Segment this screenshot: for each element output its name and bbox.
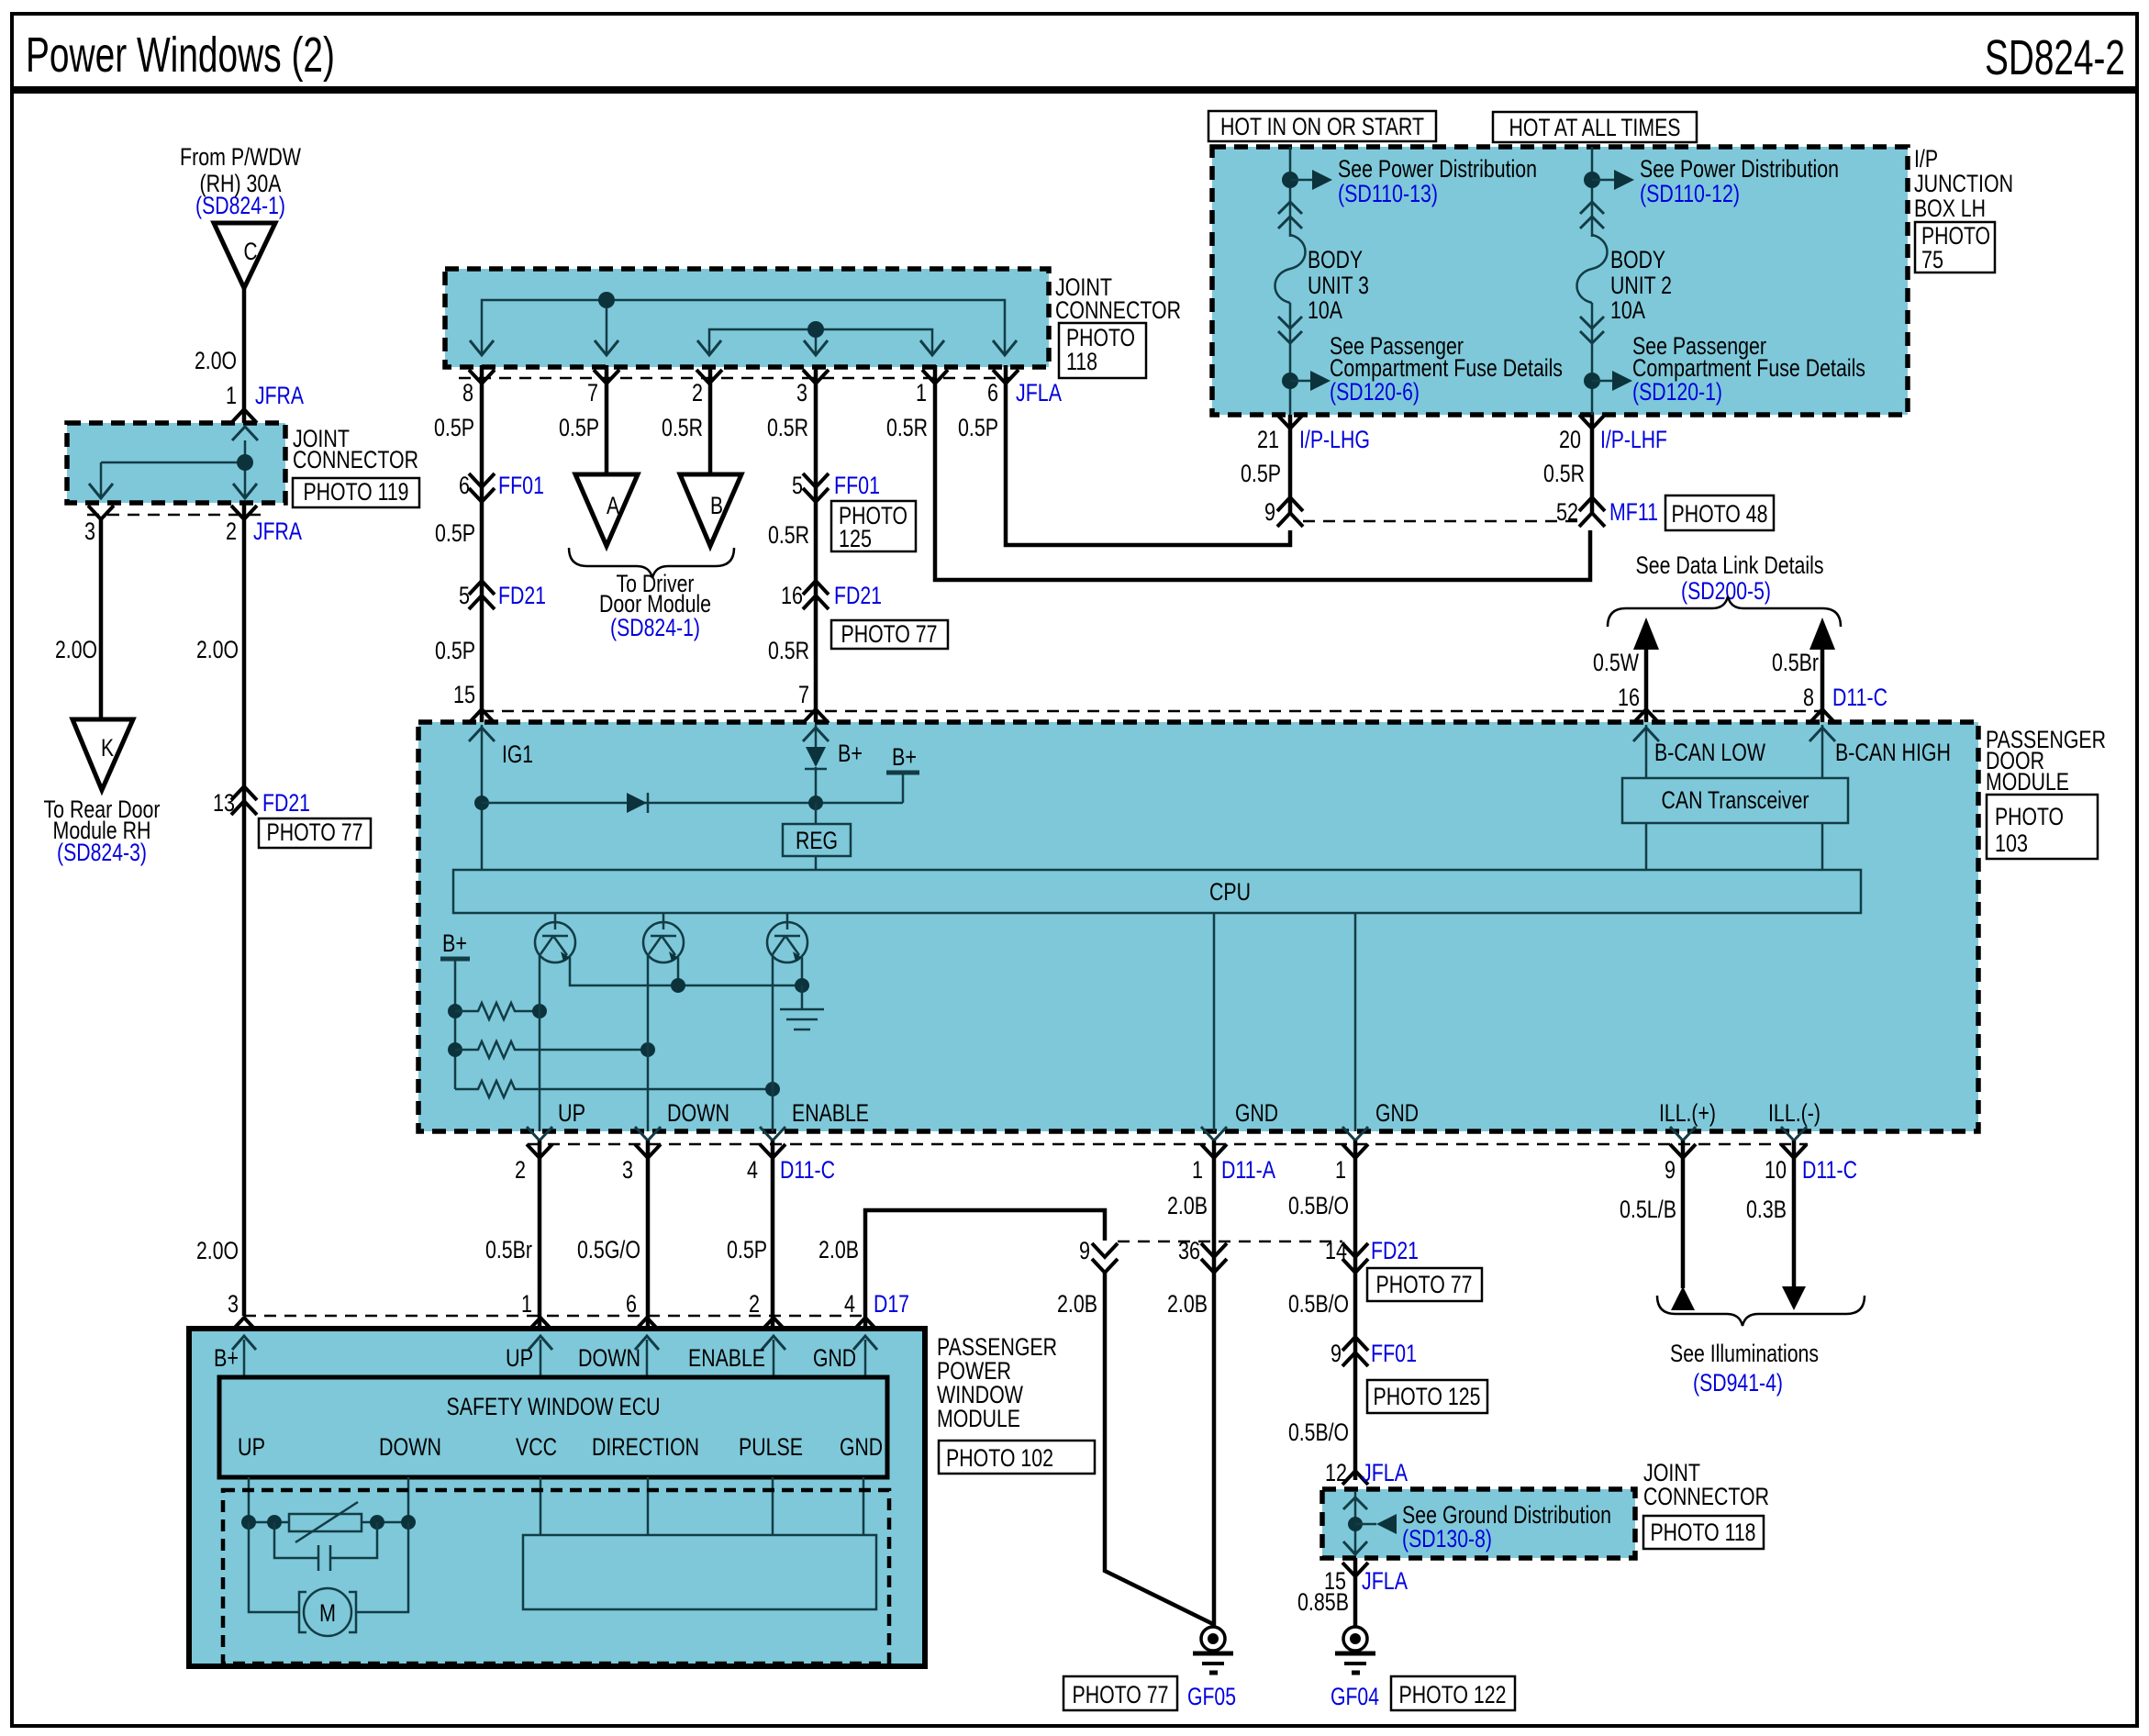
svg-text:(SD824-1): (SD824-1)	[610, 614, 700, 641]
svg-text:0.5R: 0.5R	[1543, 460, 1585, 487]
svg-text:UP: UP	[558, 1099, 585, 1127]
CAN Transceiver box	[1622, 778, 1848, 823]
svg-text:75: 75	[1921, 246, 1943, 273]
B+ pin inner chevron	[232, 1336, 256, 1350]
svg-text:13: 13	[213, 789, 235, 817]
svg-text:PHOTO 77: PHOTO 77	[267, 818, 363, 846]
svg-text:D11-C: D11-C	[780, 1156, 835, 1184]
svg-text:2: 2	[692, 379, 703, 406]
ENABLE pin inner chevron	[762, 1336, 785, 1350]
wire through JC	[1354, 1492, 1357, 1555]
wire inside JC119	[101, 462, 245, 464]
pin 2 D11-C chevrons (UP)	[527, 1127, 552, 1141]
svg-text:PHOTO 48: PHOTO 48	[1672, 500, 1768, 528]
svg-text:JFRA: JFRA	[255, 382, 304, 409]
title separator	[12, 86, 2137, 94]
svg-text:4: 4	[747, 1156, 758, 1184]
wire 0.5B/O chain from D11-C pin1	[1353, 1141, 1358, 1480]
brace over data link arrows	[1608, 596, 1841, 627]
resistor R3	[455, 1081, 773, 1097]
capacitor branch	[274, 1522, 318, 1558]
svg-text:3: 3	[228, 1290, 239, 1318]
svg-text:GF05: GF05	[1187, 1683, 1236, 1710]
wire 3: JFLA-3 down to module B+	[814, 365, 818, 725]
svg-text:FD21: FD21	[834, 582, 882, 609]
svg-text:3: 3	[622, 1156, 633, 1184]
svg-text:B-CAN HIGH: B-CAN HIGH	[1835, 739, 1951, 766]
svg-text:2.0O: 2.0O	[196, 1237, 239, 1264]
svg-text:FF01: FF01	[834, 472, 880, 499]
bus wire 1 inside JC118	[482, 300, 1005, 353]
pin 21 I/P-LHG	[1277, 415, 1303, 428]
connector triangle K	[72, 719, 133, 790]
svg-text:1: 1	[1335, 1156, 1346, 1184]
svg-text:0.5R: 0.5R	[886, 414, 928, 441]
svg-text:(SD941-4): (SD941-4)	[1693, 1369, 1783, 1397]
wires from pins to ECU	[243, 1340, 246, 1377]
transistor Q1	[554, 913, 557, 929]
svg-text:JFLA: JFLA	[1362, 1567, 1408, 1595]
svg-text:5: 5	[792, 472, 803, 499]
svg-text:JFRA: JFRA	[253, 517, 302, 545]
thermistor row	[249, 1521, 289, 1524]
ILL.(+) wire stub with up arrow	[1681, 1141, 1686, 1288]
svg-text:10A: 10A	[1308, 296, 1342, 324]
connector JFLA pin 8 chevron	[469, 370, 495, 384]
connector JFLA pin 7 chevron	[594, 370, 619, 384]
svg-text:FF01: FF01	[1371, 1340, 1417, 1367]
joint connector box (ground distribution)	[1322, 1489, 1635, 1558]
svg-text:0.5R: 0.5R	[768, 521, 809, 549]
passenger door module box	[418, 722, 1978, 1131]
svg-text:UNIT 3: UNIT 3	[1308, 272, 1369, 299]
svg-text:See Power Distribution: See Power Distribution	[1338, 155, 1537, 183]
connector 9 on 2.0B	[1092, 1243, 1118, 1257]
wire 0.5W B-CAN LOW up arrow	[1644, 642, 1649, 722]
svg-text:Power Windows (2): Power Windows (2)	[26, 28, 335, 83]
UP pin inner chevron	[529, 1336, 552, 1350]
svg-text:HOT IN ON OR START: HOT IN ON OR START	[1220, 113, 1424, 140]
svg-text:DOWN: DOWN	[379, 1433, 441, 1461]
svg-text:1: 1	[521, 1290, 532, 1318]
svg-text:K: K	[101, 734, 114, 762]
connector triangle B	[680, 474, 741, 546]
REG box	[815, 803, 818, 824]
svg-text:B-CAN LOW: B-CAN LOW	[1654, 739, 1765, 766]
motor unit dashed box	[223, 1490, 889, 1664]
pin B-CAN HIGH chevrons	[1809, 709, 1835, 723]
pin B+ chevrons	[803, 709, 829, 723]
fuse BODY UNIT 2 wire	[1591, 147, 1594, 237]
svg-text:PHOTO 119: PHOTO 119	[304, 478, 409, 506]
junction dot bus2	[807, 321, 824, 338]
svg-text:UP: UP	[506, 1344, 533, 1372]
CPU box	[453, 870, 1861, 913]
fuse symbol BODY UNIT 2 10A	[1577, 235, 1608, 303]
arrowhead to pin 3	[804, 340, 828, 355]
svg-text:118: 118	[1066, 348, 1097, 375]
svg-text:9: 9	[1079, 1237, 1090, 1264]
svg-text:D17: D17	[874, 1290, 909, 1318]
pin 1 D11-C chevrons (GND)	[1342, 1127, 1368, 1141]
emitter bus wire	[570, 957, 802, 985]
svg-text:0.5P: 0.5P	[958, 414, 998, 441]
passenger power window module box	[189, 1329, 925, 1666]
svg-text:ENABLE: ENABLE	[792, 1099, 869, 1127]
svg-text:ILL.(-): ILL.(-)	[1768, 1099, 1821, 1127]
svg-text:(SD120-1): (SD120-1)	[1632, 378, 1722, 406]
svg-text:MODULE: MODULE	[937, 1405, 1020, 1432]
svg-text:7: 7	[587, 379, 598, 406]
svg-text:PULSE: PULSE	[739, 1433, 803, 1461]
svg-text:0.5Br: 0.5Br	[1772, 649, 1819, 676]
svg-text:0.3B: 0.3B	[1746, 1196, 1787, 1223]
node C: From P/WDW (RH) 30A label	[180, 143, 301, 219]
connector JFLA pin 6 chevron	[993, 370, 1019, 384]
svg-text:36: 36	[1178, 1237, 1200, 1264]
arrowhead to pin 2	[697, 340, 721, 355]
svg-text:3: 3	[796, 379, 807, 406]
svg-text:See Data Link Details: See Data Link Details	[1636, 551, 1824, 579]
connector 5 FF01	[803, 473, 829, 487]
arrowhead to pin 7	[595, 340, 618, 355]
svg-text:From P/WDW: From P/WDW	[180, 143, 301, 171]
svg-text:2.0B: 2.0B	[1057, 1290, 1097, 1318]
svg-text:I/P-LHG: I/P-LHG	[1299, 426, 1370, 453]
svg-text:20: 20	[1559, 426, 1581, 453]
svg-text:10A: 10A	[1610, 296, 1645, 324]
svg-text:D11-C: D11-C	[1802, 1156, 1857, 1184]
svg-text:BODY: BODY	[1308, 246, 1363, 273]
svg-text:(SD110-13): (SD110-13)	[1338, 180, 1438, 207]
wire 0.5P ENABLE to PPWM	[771, 1141, 775, 1330]
junction dot bus1	[598, 292, 615, 308]
IG1 wire to CPU	[481, 725, 484, 870]
svg-text:PHOTO 118: PHOTO 118	[1651, 1519, 1756, 1546]
svg-text:FD21: FD21	[1371, 1237, 1419, 1264]
pin 4 D17 chevron (GND)	[852, 1318, 878, 1331]
svg-text:0.5G/O: 0.5G/O	[577, 1236, 640, 1263]
pin B-CAN LOW chevrons	[1633, 709, 1659, 723]
brace under illumination arrows	[1657, 1296, 1865, 1326]
connector 6 FF01	[469, 473, 495, 487]
svg-text:UNIT 2: UNIT 2	[1610, 272, 1672, 299]
pin 4 D11-C chevrons (ENABLE)	[760, 1127, 785, 1141]
connector triangle A	[575, 474, 638, 546]
connector 14 FD21	[1342, 1243, 1368, 1257]
svg-text:16: 16	[781, 582, 803, 609]
pin 1 D11-A chevrons (GND)	[1201, 1127, 1227, 1141]
svg-text:GND: GND	[840, 1433, 883, 1461]
fuse BODY UNIT 3 wire	[1289, 147, 1292, 237]
svg-text:JFLA: JFLA	[1016, 379, 1062, 406]
pin 3 D17 chevron (B+)	[231, 1318, 257, 1331]
svg-text:2: 2	[226, 517, 237, 545]
wire 6: JFLA-6 right to MF11-9	[1006, 365, 1290, 545]
svg-text:FD21: FD21	[498, 582, 546, 609]
resistor R2	[455, 1041, 648, 1058]
svg-text:GF04: GF04	[1331, 1683, 1379, 1710]
arrowheads down inside box	[89, 484, 113, 498]
wire 0.5G/O DOWN to PPWM	[646, 1141, 651, 1330]
svg-text:D11-A: D11-A	[1221, 1156, 1275, 1184]
connector pin line below module	[528, 1143, 1808, 1146]
connector 12 JFLA	[1342, 1471, 1368, 1485]
motor M branch	[249, 1522, 299, 1612]
arrowhead down at JC bottom	[1343, 1541, 1367, 1554]
arrow to See Power Distribution	[1592, 179, 1614, 182]
svg-text:B+: B+	[892, 743, 917, 771]
svg-text:0.5B/O: 0.5B/O	[1288, 1290, 1349, 1318]
wire 0.5Br B-CAN HIGH up arrow	[1821, 642, 1825, 722]
GND wire 2	[1354, 913, 1357, 1131]
svg-text:2.0O: 2.0O	[196, 636, 239, 663]
chevrons down below fuse	[1278, 317, 1302, 328]
svg-text:7: 7	[798, 681, 809, 708]
pin 1 D17 chevron (UP)	[528, 1318, 553, 1331]
junction dot lower	[1584, 373, 1600, 389]
chevrons down	[1580, 317, 1604, 328]
pin 10 D11-C chevrons (ILL-)	[1781, 1127, 1807, 1141]
svg-text:6: 6	[459, 472, 470, 499]
chevrons up	[1580, 202, 1604, 214]
svg-text:2.0B: 2.0B	[1167, 1192, 1208, 1219]
svg-text:0.5B/O: 0.5B/O	[1288, 1192, 1349, 1219]
svg-text:FD21: FD21	[262, 789, 310, 817]
wire 2.0O to K triangle	[99, 519, 104, 719]
HOT IN ON OR START box	[1208, 111, 1436, 141]
brace under triangles A,B	[569, 548, 734, 578]
svg-text:9: 9	[1331, 1340, 1342, 1367]
svg-text:HOT AT ALL TIMES: HOT AT ALL TIMES	[1509, 114, 1681, 141]
wire 0.5Br UP to PPWM	[538, 1141, 542, 1330]
svg-text:IG1: IG1	[502, 740, 533, 768]
pulse encoder box	[523, 1535, 876, 1609]
svg-text:PHOTO 77: PHOTO 77	[1073, 1681, 1169, 1708]
svg-text:0.5B/O: 0.5B/O	[1288, 1419, 1349, 1446]
svg-text:14: 14	[1325, 1237, 1347, 1264]
svg-text:MF11: MF11	[1609, 498, 1658, 526]
svg-text:GND: GND	[1235, 1099, 1278, 1127]
svg-text:2.0O: 2.0O	[55, 636, 97, 663]
svg-text:UP: UP	[238, 1433, 265, 1461]
svg-text:BOX LH: BOX LH	[1914, 195, 1986, 222]
svg-text:MODULE: MODULE	[1986, 768, 2069, 796]
svg-text:(SD130-8): (SD130-8)	[1402, 1525, 1492, 1552]
svg-text:125: 125	[839, 525, 872, 552]
svg-text:0.5R: 0.5R	[767, 414, 808, 441]
junction dot	[1348, 1517, 1363, 1531]
wire 2.0B from PPWM GND up over to GF05	[865, 1210, 1105, 1330]
connector D17 pin line above PPWM	[244, 1315, 865, 1318]
svg-text:VCC: VCC	[516, 1433, 557, 1461]
connector 16 FD21	[803, 581, 829, 595]
transistor Q3	[786, 913, 789, 929]
svg-text:CAN Transceiver: CAN Transceiver	[1662, 786, 1809, 814]
svg-text:1: 1	[916, 379, 927, 406]
svg-text:I/P: I/P	[1914, 145, 1938, 172]
connector triangle C	[214, 223, 275, 288]
joint connector JFRA box PHOTO 119	[67, 423, 285, 503]
bus wire 2 inside JC118	[709, 329, 932, 353]
svg-text:PHOTO 125: PHOTO 125	[1374, 1383, 1481, 1410]
connector JFLA pin 1 chevron	[922, 370, 948, 384]
ground inside module	[801, 985, 804, 1009]
svg-text:PHOTO 102: PHOTO 102	[946, 1444, 1053, 1472]
resistor R1	[455, 1003, 540, 1019]
svg-text:JUNCTION: JUNCTION	[1914, 170, 2013, 197]
svg-text:D11-C: D11-C	[1832, 684, 1887, 711]
connector 9 FF01	[1342, 1337, 1368, 1351]
connector 15 JFLA	[1342, 1563, 1368, 1576]
svg-text:See Illuminations: See Illuminations	[1670, 1340, 1819, 1367]
svg-text:C: C	[244, 238, 258, 265]
joint connector box PHOTO 118 (top)	[445, 269, 1049, 367]
svg-text:21: 21	[1257, 426, 1279, 453]
svg-text:3: 3	[84, 517, 95, 545]
svg-text:15: 15	[453, 681, 475, 708]
transistor Q2	[663, 913, 665, 929]
connector row dashed line	[1118, 1241, 1342, 1243]
svg-text:PHOTO 77: PHOTO 77	[1376, 1271, 1473, 1298]
svg-text:CONNECTOR: CONNECTOR	[1055, 296, 1181, 324]
wire 0.5R down	[1590, 415, 1595, 516]
svg-text:See Power Distribution: See Power Distribution	[1640, 155, 1839, 183]
svg-text:SAFETY WINDOW ECU: SAFETY WINDOW ECU	[447, 1393, 661, 1420]
svg-text:PHOTO 122: PHOTO 122	[1399, 1681, 1507, 1708]
connector JFLA pin 3 chevron	[803, 370, 829, 384]
junction dot	[1282, 172, 1298, 188]
internal rail with diode to REG	[482, 802, 903, 805]
svg-text:(SD824-3): (SD824-3)	[57, 839, 147, 866]
arrowhead to pin 1	[920, 340, 944, 355]
wire 7: JFLA-7 down to triangle A	[605, 365, 609, 474]
I/P junction box LH (teal)	[1212, 147, 1908, 415]
svg-text:B+: B+	[442, 929, 467, 957]
svg-text:2.0B: 2.0B	[818, 1236, 859, 1263]
wire 2.0B from D11-A pin1 to GF05	[1212, 1141, 1217, 1626]
svg-text:0.5Br: 0.5Br	[485, 1236, 532, 1263]
svg-text:0.5W: 0.5W	[1593, 649, 1639, 676]
svg-text:ILL.(+): ILL.(+)	[1659, 1099, 1716, 1127]
wire 2.0O from C down to PPWM pin 3	[242, 288, 247, 1316]
wire 2: JFLA-2 down to triangle B	[708, 365, 713, 474]
svg-text:PHOTO 77: PHOTO 77	[841, 620, 938, 648]
svg-text:0.5L/B: 0.5L/B	[1620, 1196, 1676, 1223]
wire 0.5P down	[1288, 415, 1293, 516]
svg-text:0.5P: 0.5P	[434, 414, 474, 441]
collector wire ENABLE	[772, 954, 774, 1131]
junction dot on IG1 wire	[474, 796, 489, 810]
svg-text:8: 8	[1803, 684, 1814, 711]
svg-text:I/P-LHF: I/P-LHF	[1600, 426, 1667, 453]
svg-text:0.5P: 0.5P	[559, 414, 599, 441]
svg-text:10: 10	[1765, 1156, 1787, 1184]
svg-text:CPU: CPU	[1209, 878, 1251, 906]
svg-text:0.5P: 0.5P	[727, 1236, 767, 1263]
junction dot	[237, 454, 253, 471]
chevrons up above fuse	[1278, 202, 1302, 214]
svg-text:4: 4	[844, 1290, 855, 1318]
svg-text:SD824-2: SD824-2	[1985, 30, 2125, 85]
diode right-pointing on rail	[627, 793, 647, 813]
ground GF04	[1343, 1627, 1367, 1651]
connector pin line below JC118	[459, 377, 1009, 380]
wire 8: JFLA-8 down to module IG1	[480, 365, 484, 725]
connector JFLA pin 2 chevron	[696, 370, 722, 384]
ILL.(-) wire stub with down arrow	[1792, 1141, 1797, 1288]
thermistor	[289, 1514, 362, 1531]
svg-text:(SD824-1): (SD824-1)	[195, 192, 285, 219]
arrowhead to pin 8	[470, 340, 494, 355]
pin 20 I/P-LHF	[1579, 415, 1605, 428]
svg-text:0.85B: 0.85B	[1297, 1588, 1349, 1616]
collector wire DOWN	[647, 954, 650, 1131]
svg-text:B+: B+	[214, 1344, 239, 1372]
connector 13 FD21 on wire 2.0O	[231, 786, 257, 800]
svg-text:(SD110-12): (SD110-12)	[1640, 180, 1740, 207]
wires from ECU down	[248, 1477, 251, 1522]
svg-text:(SD120-6): (SD120-6)	[1330, 378, 1420, 406]
junction dot	[1584, 172, 1600, 188]
collector wire UP	[539, 954, 541, 1131]
svg-text:0.5P: 0.5P	[435, 519, 475, 547]
diode down at B+ pin	[815, 725, 818, 747]
svg-text:1: 1	[1192, 1156, 1203, 1184]
connector 5 FD21	[469, 581, 495, 595]
ground GF05	[1201, 1627, 1225, 1651]
MF11 connector dashed line	[1303, 520, 1579, 523]
svg-text:CONNECTOR: CONNECTOR	[1643, 1483, 1769, 1510]
arrow right	[1592, 380, 1612, 383]
svg-text:6: 6	[626, 1290, 637, 1318]
pin 3 D11-C chevrons (DOWN)	[635, 1127, 661, 1141]
arrow left to See Ground Distribution	[1355, 1523, 1376, 1526]
svg-text:8: 8	[462, 379, 473, 406]
svg-text:2.0B: 2.0B	[1167, 1290, 1208, 1318]
svg-text:DIRECTION: DIRECTION	[592, 1433, 699, 1461]
svg-text:0.5P: 0.5P	[435, 637, 475, 664]
svg-text:GND: GND	[1375, 1099, 1419, 1127]
connector D11-C pin line above module	[482, 710, 1822, 713]
svg-text:2: 2	[749, 1290, 760, 1318]
svg-text:0.5P: 0.5P	[1241, 460, 1281, 487]
svg-text:DOWN: DOWN	[667, 1099, 729, 1127]
svg-text:M: M	[319, 1599, 336, 1627]
svg-text:5: 5	[459, 582, 470, 609]
svg-text:6: 6	[987, 379, 998, 406]
junction dot lower	[1282, 373, 1298, 389]
pin IG1 chevrons	[469, 709, 495, 723]
junction dot at B+/REG node	[808, 796, 823, 810]
connector 52 MF11	[1579, 497, 1605, 511]
GND wire 1	[1213, 913, 1216, 1131]
svg-text:2.0O: 2.0O	[195, 347, 237, 374]
svg-text:CONNECTOR: CONNECTOR	[293, 446, 418, 473]
connector 9 MF11	[1277, 497, 1303, 511]
svg-text:9: 9	[1665, 1156, 1676, 1184]
svg-text:PHOTO: PHOTO	[1995, 803, 2064, 830]
wire 0.85B to GF04	[1353, 1558, 1358, 1626]
svg-text:B: B	[710, 492, 723, 519]
pin 6 D17 chevron (DOWN)	[634, 1318, 660, 1331]
svg-text:1: 1	[226, 382, 237, 409]
pin 9 D11-C chevrons (ILL+)	[1670, 1127, 1696, 1141]
svg-text:BODY: BODY	[1610, 246, 1665, 273]
svg-text:0.5R: 0.5R	[662, 414, 703, 441]
DOWN pin inner chevron	[635, 1336, 659, 1350]
GND pin inner chevron	[853, 1336, 877, 1350]
